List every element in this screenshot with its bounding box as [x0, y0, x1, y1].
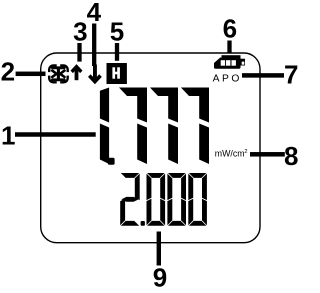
svg-text:APO: APO [213, 74, 242, 85]
svg-text:2: 2 [1, 57, 15, 87]
svg-text:2: 2 [244, 149, 247, 155]
svg-text:4: 4 [87, 0, 102, 27]
svg-text:mW/cm: mW/cm [215, 148, 245, 158]
svg-text:1: 1 [1, 120, 15, 150]
svg-text:6: 6 [223, 13, 237, 43]
svg-text:9: 9 [153, 263, 167, 289]
svg-text:3: 3 [73, 17, 87, 47]
svg-text:7: 7 [284, 60, 298, 90]
svg-text:8: 8 [284, 141, 298, 171]
svg-text:5: 5 [110, 17, 124, 47]
